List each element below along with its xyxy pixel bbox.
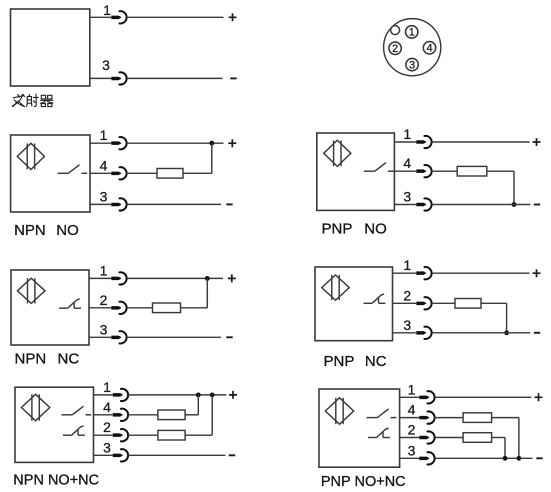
wire pin1 PNP-NO+NC box to plug: [400, 396, 420, 398]
wire NO load to riser (NPN NO+NC): [185, 414, 198, 416]
dropper load to - rail (PNP NO): [513, 171, 515, 204]
plug connector pin 3 (PNP NC): [416, 327, 431, 339]
sensor symbol diamond (PNP NC): [322, 275, 350, 300]
wire pin4 NPN-NO box to plug: [90, 172, 111, 174]
wire pin2 PNP-NO+NC box to plug: [400, 437, 420, 439]
junction node (PNP NO, - rail): [512, 202, 517, 207]
wire pin1 PNP-NO box to plug: [394, 141, 416, 143]
wire pin2 NPN-NO+NC box to plug: [94, 434, 113, 436]
wire pin3 PNP-NO+NC to -: [435, 457, 533, 459]
wire pin4 PNP-NO to load: [432, 170, 457, 172]
sensor box PNP NC: [315, 267, 393, 341]
junction node B (NPN NO+NC, + rail): [210, 393, 215, 398]
wire load to dropper (PNP NO): [487, 170, 514, 172]
sensor symbol diamond (NPN NO+NC): [21, 394, 49, 420]
plug connector pin 1 (NPN NC): [111, 272, 126, 284]
svg-text:4: 4: [103, 399, 111, 415]
NO contact switch (NPN NO): [58, 165, 88, 174]
svg-text:1: 1: [403, 257, 411, 273]
wire load to riser (NPN NO): [183, 172, 212, 174]
wire pin4 PNP-NO+NC box to plug: [400, 417, 420, 419]
svg-text:3: 3: [100, 188, 108, 204]
plug connector pin 2 (PNP NC): [416, 297, 431, 309]
junction node B (PNP NO+NC, - rail): [517, 456, 522, 461]
dropper NC load to - rail (PNP NO+NC): [504, 438, 506, 459]
NC contact switch (NPN NC): [59, 299, 81, 308]
M12 pin 1 circle: [406, 26, 418, 39]
wire pin1 NPN-NO box to plug: [90, 142, 111, 144]
wire pin4 PNP-NO box to plug: [394, 170, 416, 172]
svg-text:1: 1: [409, 27, 415, 39]
wire pin3 PNP-NC to -: [432, 332, 531, 334]
svg-text:2: 2: [100, 292, 108, 308]
dropper NO load to - rail (PNP NO+NC): [518, 418, 520, 459]
svg-text:NPN: NPN: [15, 351, 47, 368]
terminal - (NPN NO): [226, 203, 232, 205]
wire NC load to dropper (PNP NO+NC): [492, 437, 505, 439]
plug connector pin 1 (PNP NO): [416, 136, 431, 148]
plug connector pin 1 (NPN NO): [111, 137, 126, 149]
wire pin3 NPN-NC to -: [127, 336, 221, 338]
wire pin4 NPN-NO to load: [127, 172, 157, 174]
riser NO load to + rail (NPN NO+NC): [197, 395, 199, 415]
sensor box NPN NO+NC: [15, 387, 94, 462]
dropper load to - rail (PNP NC): [506, 303, 508, 333]
plug connector pin 1 (PNP NC): [416, 267, 431, 279]
M12 pin 3 circle: [406, 58, 418, 71]
riser load to + rail (NPN NO): [211, 143, 213, 173]
svg-text:3: 3: [102, 57, 110, 73]
wire pin1 NPN-NC to +: [127, 277, 223, 279]
svg-text:PNP: PNP: [324, 353, 355, 370]
svg-text:NPN: NPN: [14, 222, 46, 239]
svg-text:4: 4: [403, 155, 411, 171]
terminal + (PNP NC): [533, 269, 541, 277]
plug connector pin 3 (PNP NO+NC): [419, 452, 434, 464]
wire pin3 PNP-NO+NC box to plug: [400, 457, 420, 459]
wire pin2 PNP-NC box to plug: [393, 302, 417, 304]
terminal - (NPN NC): [226, 336, 232, 338]
wire pin4 PNP-NO+NC to load: [435, 417, 463, 419]
terminal - (PNP NO+NC): [536, 457, 542, 459]
sensor box NPN NC: [11, 270, 89, 345]
load resistor NO (PNP NO+NC): [463, 413, 492, 423]
svg-text:4: 4: [408, 402, 416, 418]
plug connector pin 3 (NPN NO+NC): [113, 449, 128, 461]
wire pin1 NPN-NC box to plug: [89, 277, 111, 279]
plug connector pin 2 (NPN NC): [111, 302, 126, 314]
load resistor (NPN NO): [157, 169, 183, 179]
plug connector pin 3 (PNP NO): [416, 198, 431, 210]
NO contact switch (PNP NO): [364, 163, 394, 172]
load resistor NC (NPN NO+NC): [158, 430, 185, 440]
load resistor (NPN NC): [153, 303, 181, 313]
svg-text:3: 3: [409, 59, 415, 71]
terminal + (NPN NC): [228, 274, 236, 282]
terminal + (emitter): [229, 13, 237, 21]
wire pin1 PNP-NC box to plug: [393, 272, 417, 274]
M12 pin 2 circle: [389, 42, 401, 55]
svg-text:NO: NO: [56, 222, 79, 239]
load resistor NC (PNP NO+NC): [463, 433, 492, 443]
svg-text:1: 1: [403, 126, 411, 142]
caption 发射器 (emitter): [12, 94, 53, 107]
terminal + (NPN NO+NC): [229, 391, 237, 399]
wire pin3 NPN-NO to -: [127, 203, 221, 205]
terminal - (emitter): [230, 77, 236, 79]
svg-text:1: 1: [408, 381, 416, 397]
svg-text:PNP NO+NC: PNP NO+NC: [321, 474, 406, 490]
sensor box PNP NO+NC: [319, 389, 400, 467]
load resistor NO (NPN NO+NC): [158, 410, 185, 420]
svg-text:3: 3: [403, 189, 411, 205]
svg-text:1: 1: [100, 262, 108, 278]
terminal - (PNP NC): [534, 332, 540, 334]
wire pin3 NPN-NO+NC to -: [128, 454, 225, 456]
wire pin1 emitter to +: [127, 16, 224, 18]
wire pin2 NPN-NC to load: [127, 307, 153, 309]
svg-text:4: 4: [100, 157, 108, 173]
wire pin3 NPN-NO box to plug: [90, 203, 111, 205]
junction node A (NPN NO+NC, + rail): [196, 393, 201, 398]
wire pin2 NPN-NC box to plug: [89, 307, 111, 309]
wire pin4 NPN-NO+NC to load: [128, 414, 158, 416]
wire pin3 NPN-NC box to plug: [89, 336, 111, 338]
plug connector pin 1 (NPN NO+NC): [113, 389, 128, 401]
sensor symbol diamond (PNP NO+NC): [325, 398, 353, 424]
riser load to + rail (NPN NC): [206, 278, 208, 307]
plug connector pin 2 (NPN NO+NC): [113, 429, 128, 441]
M12 pin 4 circle: [423, 42, 435, 55]
plug connector pin 4 (NPN NO+NC): [113, 409, 128, 421]
plug connector pin 1 (PNP NO+NC): [419, 391, 434, 403]
wire pin3 PNP-NO box to plug: [394, 204, 416, 206]
junction node A (PNP NO+NC, - rail): [503, 456, 508, 461]
svg-text:NC: NC: [365, 353, 387, 370]
svg-text:4: 4: [426, 43, 432, 55]
wire pin3 emitter to plug: [90, 77, 112, 79]
svg-text:3: 3: [408, 442, 416, 458]
wire pin3 NPN-NO+NC box to plug: [94, 454, 113, 456]
svg-text:3: 3: [403, 317, 411, 333]
sensor box PNP NO: [317, 133, 395, 210]
wire pin2 NPN-NO+NC to load: [128, 434, 158, 436]
plug connector pin 2 (PNP NO+NC): [419, 431, 434, 443]
NC contact switch (PNP NC): [364, 294, 386, 303]
svg-text:1: 1: [100, 127, 108, 143]
wire pin1 PNP-NO+NC to +: [435, 396, 532, 398]
NO contact switch (PNP NO+NC): [367, 409, 397, 418]
plug connector pin 1 (emitter): [111, 11, 126, 23]
svg-text:3: 3: [103, 439, 111, 455]
sensor symbol diamond (NPN NO): [17, 143, 44, 169]
wire pin1 emitter to plug: [90, 16, 112, 18]
keying notch circle: [391, 26, 400, 35]
plug connector pin 3 (NPN NC): [111, 331, 126, 343]
wire pin1 PNP-NC to +: [432, 272, 530, 274]
plug connector pin 3 (NPN NO): [111, 198, 126, 210]
wire pin1 NPN-NO to +: [127, 142, 224, 144]
NC contact switch (NPN NO+NC): [63, 426, 85, 435]
NC contact switch (PNP NO+NC): [368, 428, 390, 437]
svg-text:NC: NC: [58, 351, 80, 368]
svg-text:NO: NO: [364, 221, 387, 238]
riser NC load to + rail (NPN NO+NC): [211, 395, 213, 435]
junction node (NPN NO, + rail): [209, 141, 214, 146]
plug connector pin 4 (NPN NO): [111, 167, 126, 179]
wire load to riser (NPN NC): [181, 307, 208, 309]
terminal - (PNP NO): [534, 204, 540, 206]
wire load to dropper (PNP NC): [481, 302, 507, 304]
terminal + (PNP NO+NC): [535, 393, 543, 401]
wire NC load to riser (NPN NO+NC): [185, 434, 212, 436]
sensor box NPN NO: [11, 135, 90, 212]
svg-text:1: 1: [103, 2, 111, 18]
wire pin2 PNP-NO+NC to load: [435, 437, 463, 439]
terminal + (NPN NO): [228, 139, 236, 147]
wire NO load to dropper (PNP NO+NC): [492, 417, 519, 419]
wire pin1 NPN-NO+NC box to plug: [94, 394, 113, 396]
wire pin1 PNP-NO to +: [432, 141, 530, 143]
wire pin3 PNP-NO to -: [432, 204, 531, 206]
svg-text:1: 1: [103, 379, 111, 395]
wire pin3 emitter to -: [127, 77, 223, 79]
terminal - (NPN NO+NC): [229, 454, 235, 456]
load resistor (PNP NC): [455, 299, 481, 309]
plug connector pin 4 (PNP NO+NC): [419, 411, 434, 423]
sensor symbol diamond (NPN NC): [17, 278, 45, 303]
load resistor (PNP NO): [457, 166, 487, 176]
NO contact switch (NPN NO+NC): [62, 406, 92, 415]
sensor symbol diamond (PNP NO): [324, 140, 351, 166]
svg-text:PNP: PNP: [322, 221, 353, 238]
plug connector pin 4 (PNP NO): [416, 165, 431, 177]
svg-text:2: 2: [103, 419, 111, 435]
wire pin1 NPN-NO+NC to +: [128, 394, 226, 396]
plug connector pin 3 (emitter): [111, 72, 126, 84]
svg-text:NPN NO+NC: NPN NO+NC: [13, 473, 99, 489]
junction node (NPN NC, + rail): [205, 276, 210, 281]
wire pin4 NPN-NO+NC box to plug: [94, 414, 113, 416]
svg-text:2: 2: [403, 287, 411, 303]
terminal + (PNP NO): [533, 138, 541, 146]
wire pin3 PNP-NC box to plug: [393, 332, 417, 334]
wire pin2 PNP-NC to load: [432, 302, 455, 304]
emitter box 发射器: [11, 9, 90, 86]
junction node (PNP NC, - rail): [504, 330, 509, 335]
svg-text:3: 3: [100, 321, 108, 337]
svg-text:2: 2: [392, 43, 398, 55]
M12 connector face (circular): [384, 19, 441, 76]
svg-text:2: 2: [408, 422, 416, 438]
